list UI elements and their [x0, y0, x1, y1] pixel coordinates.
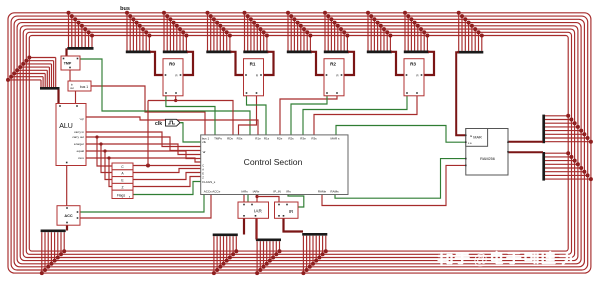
svg-text:R2e: R2e	[277, 137, 283, 141]
svg-text:@: @	[473, 253, 488, 269]
svg-text:equal: equal	[77, 149, 85, 153]
svg-text:a larger: a larger	[74, 142, 84, 146]
svg-text:Flags: Flags	[117, 194, 126, 198]
svg-text:IARs: IARs	[241, 190, 248, 194]
svg-text:R2: R2	[330, 61, 336, 66]
svg-text:RAMs: RAMs	[330, 190, 339, 194]
svg-text:zero: zero	[78, 156, 84, 160]
svg-text:RSs: RSs	[237, 137, 243, 141]
svg-text:R1: R1	[250, 61, 256, 66]
svg-text:ACCs ACCe: ACCs ACCe	[204, 190, 221, 194]
svg-text:A: A	[202, 168, 204, 172]
svg-text:E: E	[202, 172, 204, 176]
svg-text:R2s: R2s	[288, 137, 294, 141]
svg-text:MAR s: MAR s	[331, 137, 341, 141]
svg-text:s a: s a	[468, 142, 472, 145]
svg-text:TMP: TMP	[64, 62, 72, 66]
svg-text:Z: Z	[121, 185, 123, 189]
svg-text:MAR: MAR	[473, 136, 482, 140]
svg-text:TMPs: TMPs	[214, 137, 222, 141]
svg-text:RAMe: RAMe	[318, 190, 327, 194]
svg-text:Control Section: Control Section	[244, 157, 303, 167]
svg-text:FLAGS_s: FLAGS_s	[202, 180, 216, 184]
svg-text:RAM256: RAM256	[480, 157, 495, 161]
svg-text:R3e: R3e	[300, 137, 306, 141]
svg-text:R1e: R1e	[255, 137, 261, 141]
svg-text:IP_IN: IP_IN	[273, 190, 281, 194]
svg-text:IARe: IARe	[253, 190, 260, 194]
svg-text:'al': 'al'	[202, 150, 206, 154]
svg-text:ALU: ALU	[59, 123, 73, 130]
svg-text:C: C	[202, 164, 204, 168]
svg-text:RDs: RDs	[227, 137, 233, 141]
svg-text:IR: IR	[289, 209, 294, 214]
svg-text:clk: clk	[202, 140, 206, 144]
svg-text:carry out: carry out	[72, 135, 84, 139]
svg-text:R3s: R3s	[311, 137, 317, 141]
svg-text:IRs: IRs	[286, 190, 291, 194]
svg-text:out: out	[70, 86, 74, 90]
svg-text:R3: R3	[410, 61, 416, 66]
svg-text:bus 1: bus 1	[80, 85, 88, 89]
svg-text:R1s: R1s	[264, 137, 270, 141]
svg-text:carry in: carry in	[74, 130, 84, 134]
svg-text:R0: R0	[169, 61, 175, 66]
svg-text:'op': 'op'	[80, 117, 85, 121]
svg-text:bus: bus	[120, 6, 130, 12]
svg-text:ACC: ACC	[64, 214, 72, 218]
svg-text:IAR: IAR	[254, 209, 262, 214]
svg-text:clk: clk	[155, 121, 162, 127]
